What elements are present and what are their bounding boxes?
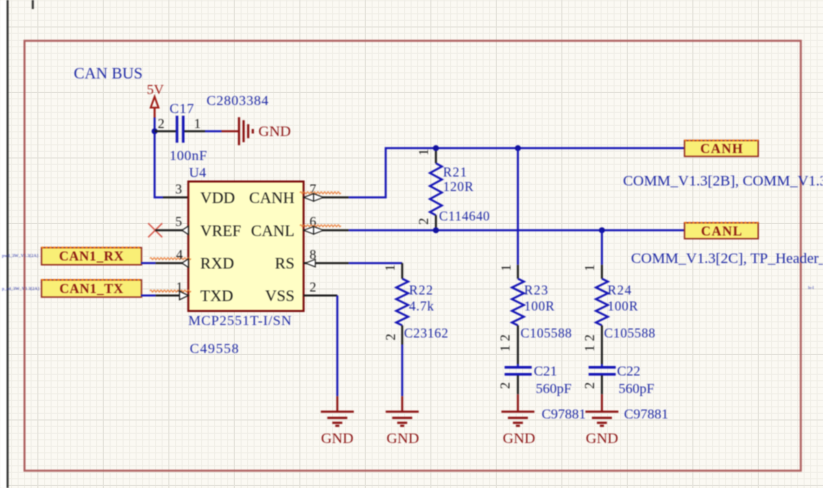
svg-text:2: 2 — [158, 116, 165, 131]
squiggle pin 6 — [300, 225, 341, 227]
svg-text:R22: R22 — [409, 283, 434, 298]
svg-text:GND: GND — [503, 431, 536, 447]
CANH bidir arrow — [304, 194, 324, 202]
svg-text:C21: C21 — [534, 365, 557, 380]
squiggle pin 1 — [150, 290, 191, 292]
power 5V symbol — [151, 97, 159, 118]
squiggle pin 4 — [150, 258, 191, 260]
wire CANH net to R23 — [517, 148, 519, 265]
CANL bidir arrow — [304, 227, 324, 235]
resistor R22 — [396, 263, 408, 412]
svg-text:C2803384: C2803384 — [207, 94, 269, 109]
svg-text:2: 2 — [582, 334, 597, 341]
svg-text:C22: C22 — [617, 365, 640, 380]
svg-text:1: 1 — [416, 149, 431, 156]
svg-text:p_ad_3W_V1.3[2A]: p_ad_3W_V1.3[2A] — [2, 286, 40, 291]
svg-text:CAN1_RX: CAN1_RX — [59, 249, 124, 264]
svg-text:ls-l: ls-l — [808, 285, 815, 290]
svg-text:5: 5 — [175, 214, 182, 229]
svg-text:R23: R23 — [524, 283, 549, 298]
junction CANL-R24 — [599, 227, 605, 233]
wire port to TXD — [141, 295, 188, 297]
svg-text:2: 2 — [582, 382, 597, 389]
svg-text:CANL: CANL — [701, 224, 743, 239]
svg-text:1: 1 — [498, 345, 513, 352]
svg-text:100nF: 100nF — [170, 149, 208, 164]
junction CANL-R21 — [433, 227, 439, 233]
svg-text:C97881: C97881 — [542, 407, 586, 422]
svg-text:CANH: CANH — [700, 141, 743, 156]
svg-text:CANH: CANH — [249, 190, 295, 207]
wire C17 to GND — [184, 130, 238, 132]
svg-text:R21: R21 — [443, 165, 468, 180]
svg-text:2: 2 — [416, 218, 431, 225]
port CAN1_RX — [42, 247, 142, 264]
resistor R21 — [430, 148, 442, 230]
wire C21 to GND — [517, 376, 519, 412]
svg-text:C105588: C105588 — [521, 326, 573, 341]
ground (rotated) near C17 — [239, 117, 253, 145]
svg-text:CANL: CANL — [251, 223, 295, 240]
TXD arrow — [180, 291, 189, 300]
svg-text:GND: GND — [586, 431, 619, 447]
capacitor C17 — [177, 116, 183, 143]
white margin strip — [0, 0, 7, 488]
svg-text:C23162: C23162 — [404, 326, 449, 341]
svg-text:560pF: 560pF — [536, 382, 572, 397]
svg-text:CAN1_TX: CAN1_TX — [59, 281, 123, 296]
wire RS to R22 — [304, 262, 403, 264]
wire VREF stub — [155, 229, 188, 231]
svg-text:100R: 100R — [608, 298, 639, 313]
svg-text:1: 1 — [194, 116, 201, 131]
RS arrow — [306, 259, 316, 267]
svg-text:1: 1 — [582, 345, 597, 352]
svg-text:100R: 100R — [524, 298, 555, 313]
svg-text:120R: 120R — [443, 179, 474, 194]
svg-text:4.7k: 4.7k — [409, 298, 434, 313]
svg-text:2: 2 — [498, 334, 513, 341]
ground under C22 — [585, 412, 618, 426]
svg-text:VSS: VSS — [265, 288, 294, 305]
svg-text:2: 2 — [498, 382, 513, 389]
svg-text:5V: 5V — [147, 83, 164, 98]
wire VSS to GND — [304, 296, 338, 412]
svg-text:1: 1 — [383, 264, 398, 271]
ground under VSS — [321, 412, 354, 426]
svg-text:C105588: C105588 — [604, 326, 656, 341]
svg-text:C97881: C97881 — [624, 407, 668, 422]
svg-text:TXD: TXD — [200, 288, 233, 305]
VREF no-connect X — [148, 223, 162, 237]
wire CANL net to R24 — [601, 230, 603, 264]
svg-text:C49558: C49558 — [190, 342, 240, 357]
wire CANH pin to net — [304, 148, 685, 197]
svg-text:RXD: RXD — [200, 256, 234, 273]
wire C22 to GND — [601, 376, 603, 412]
svg-text:2: 2 — [310, 280, 317, 295]
svg-text:3: 3 — [175, 182, 182, 197]
svg-text:CAN BUS: CAN BUS — [74, 66, 143, 83]
capacitor C21 — [505, 364, 532, 374]
ground under C21 — [501, 412, 534, 426]
svg-text:GND: GND — [387, 431, 420, 447]
svg-text:MCP2551T-I/SN: MCP2551T-I/SN — [188, 314, 292, 329]
junction CANH-R23 — [515, 145, 521, 151]
svg-text:2: 2 — [383, 333, 398, 340]
VREF arrow — [182, 226, 188, 235]
svg-text:RS: RS — [275, 256, 295, 273]
port CANH — [685, 140, 759, 156]
squiggle pin 7 — [300, 192, 341, 194]
svg-text:R24: R24 — [608, 283, 633, 298]
svg-text:U4: U4 — [189, 166, 206, 181]
svg-text:pwd_3W_V1.3[2A]: pwd_3W_V1.3[2A] — [2, 253, 39, 258]
wire 5V to junction — [154, 118, 156, 132]
resistor R24 — [596, 265, 608, 364]
RXD arrow — [182, 259, 188, 268]
wire junction to C17 — [155, 130, 176, 132]
svg-text:1: 1 — [498, 264, 513, 271]
svg-text:COMM_V1.3[2B], COMM_V1.3: COMM_V1.3[2B], COMM_V1.3 — [623, 174, 823, 190]
svg-text:GND: GND — [321, 431, 354, 447]
port CAN1_TX — [42, 280, 142, 297]
capacitor C22 — [589, 364, 616, 374]
wire VDD stub — [163, 196, 188, 198]
wire junction to VDD — [155, 131, 163, 197]
junction CANH-R21 — [433, 145, 439, 151]
svg-text:C114640: C114640 — [439, 209, 490, 224]
resistor R23 — [512, 265, 524, 364]
wire CANL pin to net — [304, 229, 685, 231]
svg-text:GND: GND — [258, 124, 291, 140]
black tick top — [32, 0, 34, 9]
svg-text:VDD: VDD — [200, 190, 235, 207]
svg-text:1: 1 — [582, 264, 597, 271]
svg-text:COMM_V1.3[2C], TP_Header_: COMM_V1.3[2C], TP_Header_ — [631, 251, 823, 267]
svg-text:C17: C17 — [170, 102, 195, 117]
svg-text:VREF: VREF — [200, 223, 241, 240]
svg-text:4: 4 — [176, 247, 183, 262]
wire port to RXD — [141, 262, 188, 264]
port CANL — [685, 223, 759, 239]
junction node — [152, 128, 158, 134]
ground under R22 — [386, 412, 419, 426]
black frame line — [7, 0, 9, 488]
svg-text:560pF: 560pF — [619, 382, 655, 397]
op-amp U4 MCP2551 body — [188, 182, 303, 312]
